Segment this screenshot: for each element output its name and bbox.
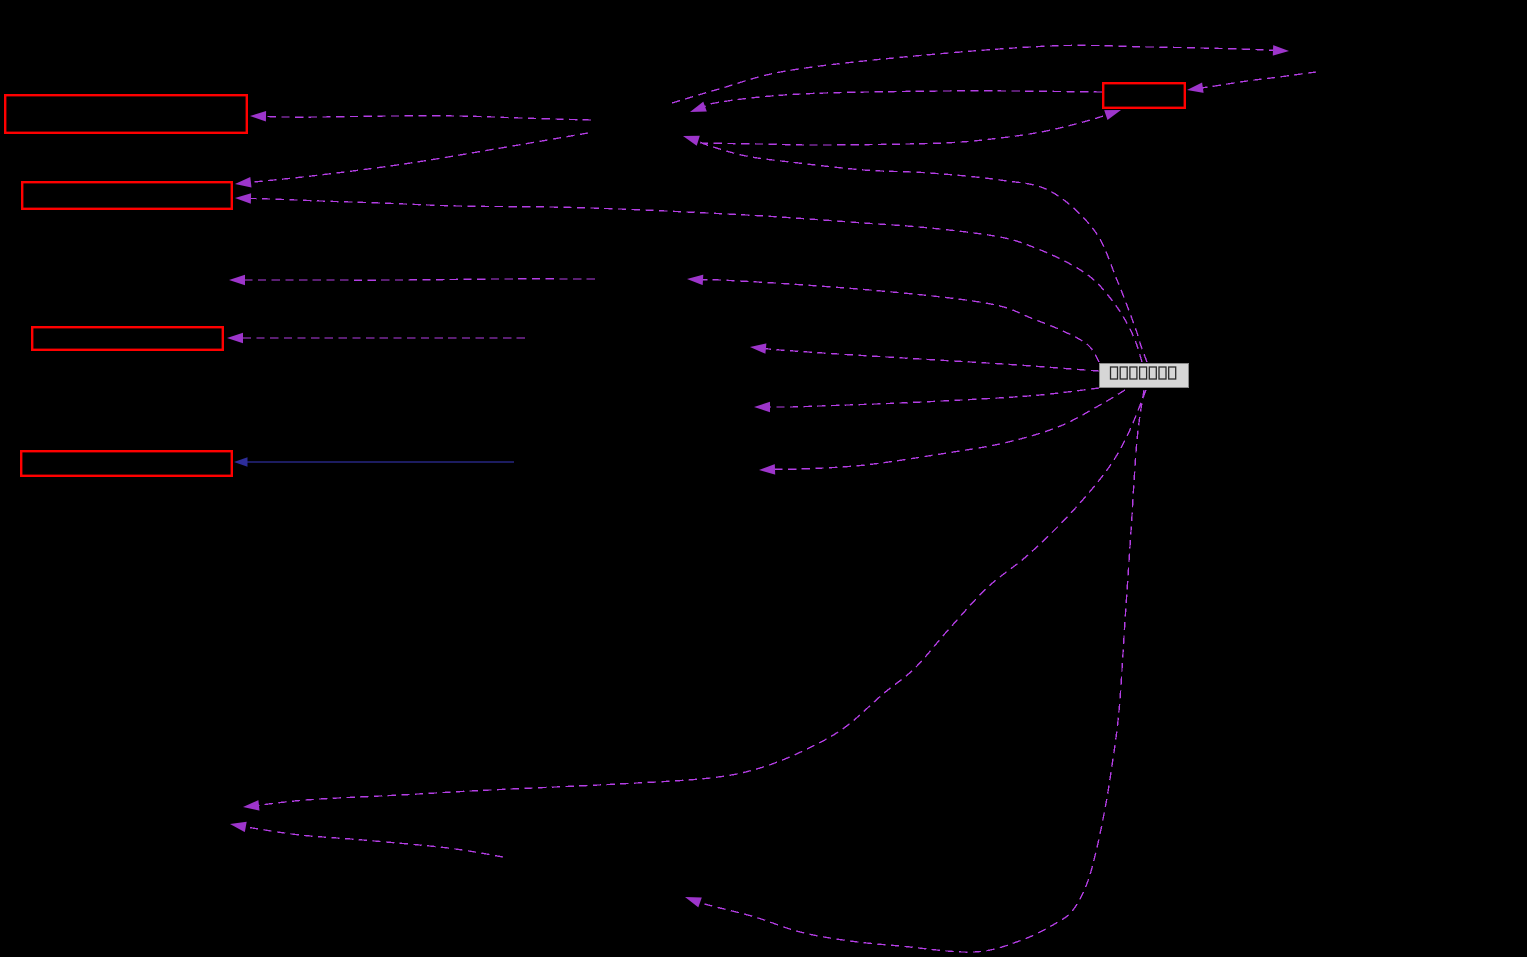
edge from node N4 to red box C	[227, 333, 525, 343]
edge V4 from hub to node N4	[750, 343, 1099, 371]
edge D1 from far-right node into red box E	[1187, 72, 1316, 93]
edge from node N1 to red box A	[250, 111, 591, 122]
red box D	[21, 451, 232, 476]
edge T1 to top-right node	[672, 45, 1289, 103]
edge V2 from hub to red box B	[235, 193, 1142, 362]
edge from node N3 to far-left node A	[229, 275, 595, 285]
edge B3 from hub to bottom-left node	[243, 390, 1146, 811]
red box E	[1103, 83, 1185, 108]
edge H1 from red box E to node N1	[690, 91, 1102, 112]
edge solid navy from node to red box D	[234, 457, 514, 467]
edge from node N2 to red box B top	[235, 133, 588, 188]
red box B	[22, 182, 232, 209]
hub node gray box with tofu label	[1100, 364, 1189, 388]
edge B2 from hub to node N6	[759, 390, 1125, 475]
edge B1 from hub to node N5	[754, 388, 1099, 412]
edge V1 from hub to node N2	[683, 136, 1147, 362]
red box C	[32, 327, 223, 350]
edge to bottom-left node B	[230, 822, 503, 857]
edge V3 from hub to node N3	[687, 275, 1099, 362]
red box A	[5, 95, 247, 133]
edge A from node N2 to red box E bottom	[700, 110, 1121, 145]
edge B4 from hub around bottom to node	[685, 390, 1144, 952]
